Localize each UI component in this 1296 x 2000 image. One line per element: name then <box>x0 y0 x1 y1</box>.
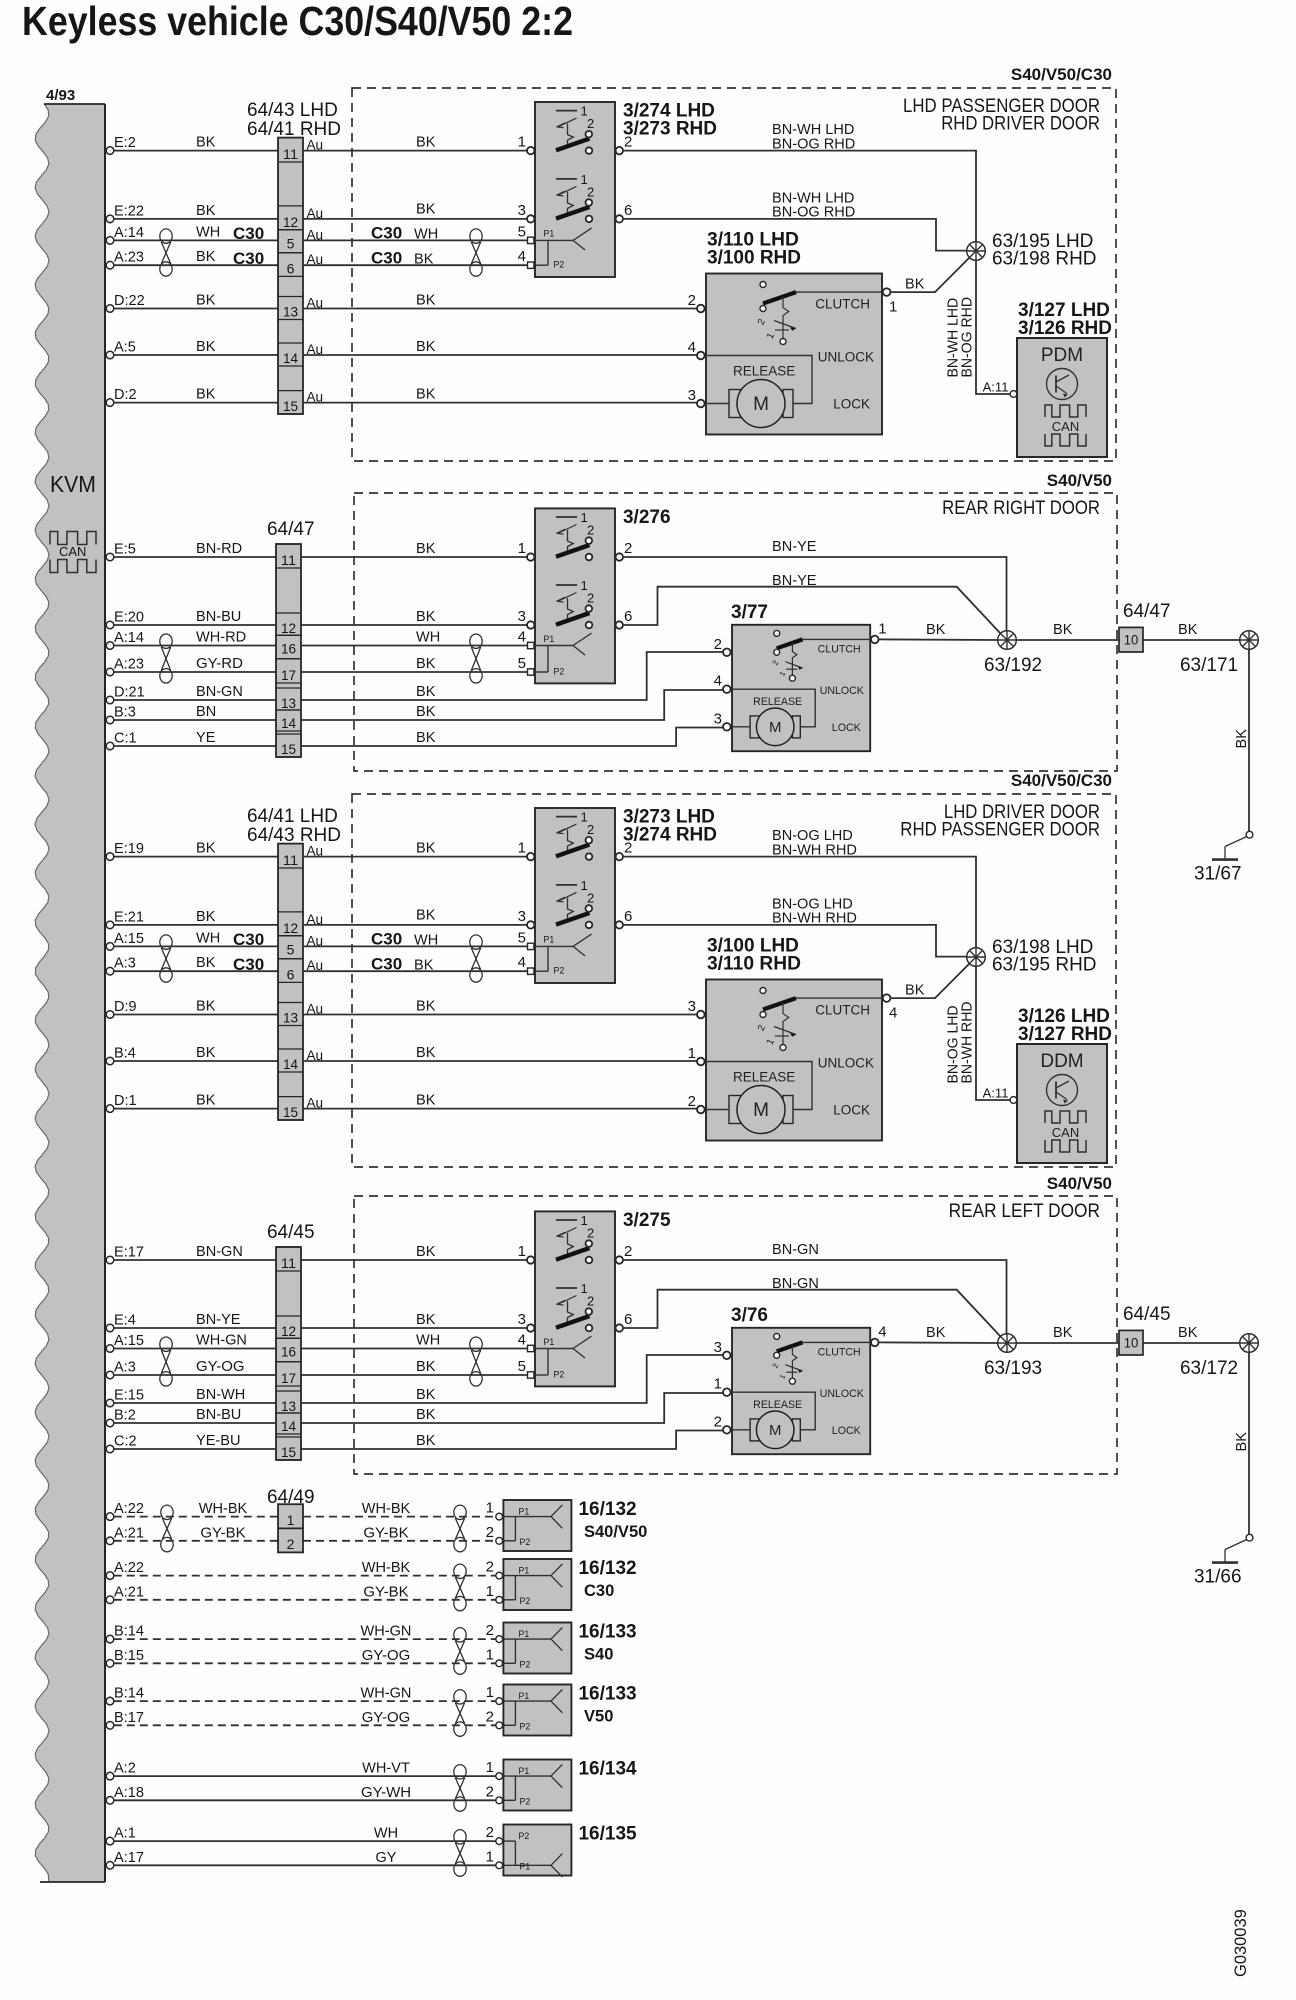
svg-text:BN-YE: BN-YE <box>772 538 817 555</box>
svg-text:BK: BK <box>196 134 215 151</box>
svg-text:BK: BK <box>1233 1432 1250 1451</box>
svg-text:3: 3 <box>714 1339 722 1356</box>
KVM pin E:2 <box>106 134 136 154</box>
wire B:15 from KVM to antenna 16/133 S40 <box>114 1662 496 1664</box>
svg-text:BK: BK <box>416 1243 435 1260</box>
svg-text:4: 4 <box>518 629 526 646</box>
KVM pin E:21 <box>106 908 144 928</box>
svg-text:LOCK: LOCK <box>832 722 861 734</box>
svg-text:BK: BK <box>416 338 435 355</box>
wire C:1 BK from connector to lock (jogged) <box>301 728 723 747</box>
svg-text:BK: BK <box>196 998 215 1015</box>
KVM pin A:21 <box>106 1524 144 1544</box>
antenna unit 16/135 body <box>503 1825 571 1876</box>
twisted pair before connector <box>160 229 172 276</box>
wire colour labels <box>361 1623 412 1664</box>
svg-text:BK: BK <box>416 200 435 217</box>
lock 3/100 clutch switch <box>756 988 796 1051</box>
svg-text:64/43 LHD: 64/43 LHD <box>247 100 338 121</box>
svg-text:A:21: A:21 <box>114 1583 144 1600</box>
splice 63/195 <box>967 242 986 261</box>
KVM pin B:3 <box>106 704 136 724</box>
svg-text:31/67: 31/67 <box>1194 864 1242 885</box>
KVM pin A:1 <box>106 1825 136 1845</box>
KVM pin A:14 <box>106 224 144 244</box>
wire D:1 BK from connector to component <box>303 1108 697 1110</box>
module PDM transistor symbol <box>1047 369 1078 400</box>
splice 63/193 <box>998 1334 1017 1353</box>
antenna pin numbers <box>486 1684 494 1725</box>
svg-text:P2: P2 <box>520 1722 531 1732</box>
svg-text:14: 14 <box>283 1056 298 1072</box>
svg-text:BK: BK <box>196 1092 215 1109</box>
svg-text:2: 2 <box>624 134 632 151</box>
lock 3/76 clutch switch <box>770 1333 802 1384</box>
svg-text:G030039: G030039 <box>1231 1909 1250 1977</box>
connector 64/41 pin 15 <box>278 1097 303 1120</box>
svg-text:A:11: A:11 <box>983 1086 1009 1101</box>
svg-text:3/76: 3/76 <box>731 1305 768 1326</box>
svg-text:16/132: 16/132 <box>579 1558 637 1579</box>
KVM pin A:23 <box>106 249 144 269</box>
svg-text:5: 5 <box>287 236 295 252</box>
svg-text:WH-BK: WH-BK <box>362 1559 411 1576</box>
svg-text:2: 2 <box>486 1559 494 1576</box>
svg-text:3/273 RHD: 3/273 RHD <box>623 119 717 140</box>
wire C:1 YE from KVM to connector <box>114 745 276 747</box>
svg-text:2: 2 <box>714 636 722 653</box>
wire E:21 BK from KVM to connector <box>114 924 278 926</box>
svg-text:P2: P2 <box>554 260 565 270</box>
connector 64/47 pin 12 <box>276 613 301 636</box>
wire D:1 BK from KVM to connector <box>114 1108 278 1110</box>
svg-text:3: 3 <box>688 998 696 1015</box>
svg-text:2: 2 <box>587 116 594 131</box>
twisted pair after connector <box>470 935 482 982</box>
svg-text:A:11: A:11 <box>983 380 1009 395</box>
connector 64/43 body <box>278 138 303 414</box>
svg-text:A:22: A:22 <box>114 1559 144 1576</box>
svg-text:RHD DRIVER DOOR: RHD DRIVER DOOR <box>941 114 1100 135</box>
wire BK from lock clutch pin to splice <box>890 964 969 999</box>
wire D:22 BK from connector to component <box>303 308 697 310</box>
svg-text:1: 1 <box>486 1646 494 1663</box>
wire A:23 BK from connector to switch <box>301 671 528 673</box>
switch 3/275 right pins 2/6 <box>616 1243 633 1332</box>
wire A:15 WH from KVM to connector <box>114 945 278 947</box>
svg-text:BK: BK <box>1053 621 1072 638</box>
svg-text:63/195 RHD: 63/195 RHD <box>992 955 1097 976</box>
svg-text:3: 3 <box>518 608 526 625</box>
svg-text:BK: BK <box>905 982 924 999</box>
connector 64/41 pin 6 <box>278 959 303 983</box>
twisted pair before connector <box>160 935 172 982</box>
wire D:9 BK from KVM to connector <box>114 1014 278 1016</box>
wire A:15 WH-GN from KVM to connector <box>114 1348 276 1350</box>
antenna pin numbers <box>486 1559 494 1600</box>
antenna 16/134 internal symbol <box>503 1764 562 1806</box>
KVM pin A:18 <box>106 1784 144 1804</box>
svg-text:BK: BK <box>196 1044 215 1061</box>
svg-text:BK: BK <box>414 957 433 974</box>
svg-text:12: 12 <box>283 920 298 936</box>
connector 64/43 pin 12 <box>278 206 303 230</box>
connector 64/45 pin 15 <box>276 1437 301 1460</box>
svg-text:13: 13 <box>283 304 298 320</box>
svg-text:4: 4 <box>889 1005 897 1022</box>
connector 64/41 pin 5 <box>278 936 303 959</box>
lock 3/100 right pin 4 <box>883 994 898 1021</box>
svg-text:2: 2 <box>486 1708 494 1725</box>
lock 3/77 release wire frame <box>732 689 815 727</box>
lock 3/110 right pin 1 <box>883 288 898 315</box>
svg-text:GY: GY <box>376 1849 397 1866</box>
KVM pin A:22 <box>106 1559 144 1579</box>
svg-text:63/172: 63/172 <box>1180 1358 1238 1379</box>
svg-text:A:3: A:3 <box>114 955 136 972</box>
connector 64/47 pin 13 <box>276 688 301 711</box>
connector 64/41 pin 11 <box>278 844 303 868</box>
svg-text:3/100 RHD: 3/100 RHD <box>707 248 801 269</box>
KVM pin D:9 <box>106 998 136 1018</box>
antenna unit 16/132 C30 body <box>503 1559 571 1610</box>
svg-text:CLUTCH: CLUTCH <box>815 1003 870 1018</box>
svg-text:63/192: 63/192 <box>984 655 1042 676</box>
svg-text:E:15: E:15 <box>114 1387 144 1404</box>
section border S1 LHD passenger door <box>352 88 1116 461</box>
antenna 16/132 C30 internal symbol <box>503 1564 562 1606</box>
svg-text:3: 3 <box>688 387 696 404</box>
svg-text:1: 1 <box>889 299 897 316</box>
wire A:22 from KVM to antenna 16/132 C30 <box>114 1575 496 1577</box>
KVM pin D:22 <box>106 292 145 312</box>
svg-text:2: 2 <box>587 1226 594 1241</box>
switch 3/273 pole 2 <box>556 878 594 928</box>
connector 64/47 pin 15 <box>276 734 301 757</box>
KVM pin E:20 <box>106 609 144 629</box>
svg-text:RELEASE: RELEASE <box>753 1399 802 1411</box>
svg-text:WH: WH <box>196 223 220 240</box>
svg-text:1: 1 <box>486 1848 494 1865</box>
svg-text:16: 16 <box>281 641 296 657</box>
switch 3/274 pole 2 <box>556 172 594 222</box>
svg-text:BK: BK <box>196 386 215 403</box>
svg-text:BK: BK <box>416 1358 435 1375</box>
switch 3/276 pole 2 <box>556 578 594 628</box>
antenna 16/135 internal symbol <box>503 1831 562 1877</box>
lock 3/76 left pins <box>714 1339 731 1434</box>
svg-text:WH-BK: WH-BK <box>362 1500 411 1517</box>
svg-text:M: M <box>769 1423 781 1439</box>
wire BN from switch pin 6 to splice <box>624 219 967 251</box>
svg-text:2: 2 <box>624 840 632 857</box>
svg-text:CAN: CAN <box>1052 1125 1079 1140</box>
module pin A:11 <box>983 380 1017 398</box>
KVM pin B:14 <box>106 1685 144 1705</box>
svg-text:10: 10 <box>1124 633 1139 648</box>
svg-text:C30: C30 <box>233 955 264 974</box>
wire E:5 BK from connector to switch <box>301 556 527 558</box>
svg-text:BN: BN <box>196 703 216 720</box>
switch 3/276 pole 1 <box>556 510 594 560</box>
lock 3/76 clutch output wire <box>803 1341 871 1343</box>
svg-text:1: 1 <box>486 1684 494 1701</box>
wire D:9 BK from connector to component <box>303 1014 697 1016</box>
connector 64/43 pin 5 <box>278 230 303 253</box>
switch 3/274 right pins 2/6 <box>616 134 633 223</box>
svg-text:C30: C30 <box>233 930 264 949</box>
svg-text:E:5: E:5 <box>114 541 136 558</box>
svg-text:2: 2 <box>587 523 594 538</box>
svg-text:6: 6 <box>624 202 632 219</box>
KVM pin A:21 <box>106 1583 144 1603</box>
wire BK from connector to ground splice <box>1143 639 1240 641</box>
wire B:2 BK from connector to lock (jogged) <box>301 1393 723 1423</box>
KVM pin C:2 <box>106 1433 136 1453</box>
connector 64/47 pin 14 <box>276 710 301 731</box>
twisted pair before connector <box>161 1505 173 1552</box>
svg-text:P2: P2 <box>520 1797 531 1807</box>
switch 3/275 antenna coupling P1/P2 <box>535 1336 592 1379</box>
twisted pair <box>454 1830 466 1877</box>
svg-text:A:17: A:17 <box>114 1849 144 1866</box>
svg-text:11: 11 <box>283 852 298 868</box>
svg-text:WH-RD: WH-RD <box>196 629 246 646</box>
svg-text:3: 3 <box>518 908 526 925</box>
wire A:3 BK from connector to switch <box>301 1374 528 1376</box>
svg-text:C30: C30 <box>584 1582 614 1600</box>
KVM top edge <box>44 103 105 105</box>
svg-text:11: 11 <box>281 1255 296 1271</box>
svg-text:BK: BK <box>416 840 435 857</box>
svg-text:BK: BK <box>416 906 435 923</box>
KVM control module 4/93 <box>35 104 105 1882</box>
lock 3/100 clutch output wire <box>796 997 882 999</box>
svg-text:64/45: 64/45 <box>1123 1304 1171 1325</box>
wire B:4 BK from KVM to connector <box>114 1060 278 1062</box>
svg-text:BK: BK <box>416 655 435 672</box>
svg-text:WH: WH <box>414 931 438 948</box>
wire D:21 BN-GN from KVM to connector <box>114 699 276 701</box>
switch 3/273 antenna coupling P1/P2 <box>535 934 592 976</box>
svg-text:BK: BK <box>416 1432 435 1449</box>
svg-text:E:2: E:2 <box>114 134 136 151</box>
svg-text:WH: WH <box>374 1825 398 1842</box>
twisted pair after connector <box>470 1337 482 1386</box>
lock 3/100 release wire frame <box>706 1062 812 1110</box>
connector 64/43 pin 13 <box>278 297 303 320</box>
svg-text:BK: BK <box>416 386 435 403</box>
svg-text:2: 2 <box>486 1783 494 1800</box>
svg-text:BN-GN: BN-GN <box>196 1243 243 1260</box>
antenna pin numbers <box>486 1824 494 1865</box>
KVM pin D:2 <box>106 386 136 406</box>
lock 3/76 right pin 4 <box>871 1323 887 1346</box>
svg-text:BK: BK <box>416 729 435 746</box>
svg-text:6: 6 <box>624 608 632 625</box>
wire A:21 from KVM to antenna 16/132 C30 <box>114 1599 496 1601</box>
svg-text:A:3: A:3 <box>114 1359 136 1376</box>
KVM pin A:5 <box>106 339 136 359</box>
switch 3/275 left pins 1/3/4/5 <box>518 1243 535 1378</box>
lock 3/110 clutch switch <box>756 282 796 345</box>
KVM CAN symbol <box>50 532 96 573</box>
svg-text:WH-GN: WH-GN <box>196 1332 247 1349</box>
svg-text:13: 13 <box>281 695 296 711</box>
svg-text:2: 2 <box>688 1093 696 1110</box>
svg-text:BK: BK <box>926 621 945 638</box>
svg-text:A:22: A:22 <box>114 1500 144 1517</box>
svg-text:GY-BK: GY-BK <box>200 1524 245 1541</box>
wire A:5 BK from KVM to connector <box>114 354 278 356</box>
svg-text:2: 2 <box>688 292 696 309</box>
svg-text:GY-OG: GY-OG <box>362 1709 411 1726</box>
svg-text:B:3: B:3 <box>114 704 136 721</box>
wire colour labels <box>361 1685 412 1726</box>
svg-text:BN-OG RHD: BN-OG RHD <box>772 204 855 221</box>
svg-text:3/77: 3/77 <box>731 602 768 623</box>
svg-text:BK: BK <box>196 840 215 857</box>
KVM pin B:14 <box>106 1623 144 1643</box>
wire E:15 BN-WH from KVM to connector <box>114 1402 276 1404</box>
wire C:2 YE-BU from KVM to connector <box>114 1448 276 1450</box>
twisted pair after connector <box>470 634 482 683</box>
svg-text:1: 1 <box>518 1243 526 1260</box>
svg-text:C30: C30 <box>371 249 402 268</box>
svg-text:14: 14 <box>281 715 296 731</box>
svg-text:P1: P1 <box>519 1766 530 1776</box>
twisted pair <box>454 1690 466 1737</box>
antenna 16/132 S40/V50 pins <box>496 1513 503 1544</box>
svg-text:S40: S40 <box>584 1646 613 1664</box>
svg-text:E:17: E:17 <box>114 1244 144 1261</box>
section border S4 rear left door <box>354 1196 1117 1474</box>
svg-text:WH-BK: WH-BK <box>199 1500 248 1517</box>
connector 64/45 pin 17 <box>276 1362 301 1386</box>
wire BN from switch pin 6 to splice (diagonal) <box>624 587 1001 634</box>
svg-text:BK: BK <box>416 1044 435 1061</box>
svg-text:2: 2 <box>486 1622 494 1639</box>
svg-text:BK: BK <box>196 954 215 971</box>
wire BN from switch pin 2 to splice <box>624 557 1007 631</box>
svg-text:BK: BK <box>1233 729 1250 748</box>
wire E:2 BK from connector to component <box>303 150 527 152</box>
ground connection point 31/67 <box>1194 831 1253 884</box>
svg-text:3/110 RHD: 3/110 RHD <box>707 954 801 975</box>
wire BN from switch pin 6 to splice <box>624 925 967 957</box>
ground splice 63/172 <box>1240 1334 1259 1353</box>
svg-text:64/41 LHD: 64/41 LHD <box>247 806 338 827</box>
svg-text:1: 1 <box>518 134 526 151</box>
lock 3/77 clutch switch <box>770 630 802 681</box>
svg-text:14: 14 <box>281 1418 296 1434</box>
svg-text:BN-OG RHD: BN-OG RHD <box>772 136 855 153</box>
svg-text:BK: BK <box>416 540 435 557</box>
svg-text:KVM: KVM <box>50 471 96 497</box>
door switch unit 3/273 body <box>535 808 615 983</box>
KVM pin A:15 <box>106 930 144 950</box>
svg-text:BK: BK <box>1178 621 1197 638</box>
wire A:5 BK from connector to component <box>303 354 697 356</box>
wire BK from splice to in-line connector <box>1016 1342 1119 1344</box>
antenna unit 16/134 body <box>503 1760 571 1811</box>
svg-text:PDM: PDM <box>1041 345 1083 366</box>
wire colour labels <box>362 1559 411 1600</box>
svg-text:63/171: 63/171 <box>1180 655 1238 676</box>
svg-text:A:23: A:23 <box>114 656 144 673</box>
svg-text:16/133: 16/133 <box>579 1684 637 1705</box>
svg-text:BK: BK <box>416 998 435 1015</box>
svg-text:UNLOCK: UNLOCK <box>820 1388 864 1400</box>
svg-text:D:21: D:21 <box>114 684 145 701</box>
svg-text:GY-BK: GY-BK <box>363 1524 408 1541</box>
KVM pin E:22 <box>106 202 144 222</box>
svg-text:WH-VT: WH-VT <box>362 1760 410 1777</box>
KVM pin A:2 <box>106 1760 136 1780</box>
svg-text:BN-WH: BN-WH <box>196 1386 245 1403</box>
connector 64/47 body <box>276 544 301 757</box>
switch 3/275 pole 1 <box>556 1213 594 1263</box>
svg-text:5: 5 <box>518 1358 526 1375</box>
svg-text:17: 17 <box>281 1370 296 1386</box>
svg-text:4: 4 <box>688 339 696 356</box>
wire A:17 from KVM to antenna 16/135 <box>114 1864 496 1866</box>
wire A:2 from KVM to antenna 16/134 <box>114 1775 496 1777</box>
svg-text:GY-WH: GY-WH <box>361 1784 411 1801</box>
svg-text:BK: BK <box>196 908 215 925</box>
svg-text:P2: P2 <box>520 1537 531 1547</box>
svg-text:CAN: CAN <box>1052 419 1079 434</box>
svg-text:B:2: B:2 <box>114 1407 136 1424</box>
svg-text:BK: BK <box>1053 1324 1072 1341</box>
wire E:19 BK from connector to component <box>303 856 527 858</box>
svg-text:B:14: B:14 <box>114 1623 144 1640</box>
svg-text:13: 13 <box>283 1010 298 1026</box>
connector 64/43 pin 6 <box>278 253 303 277</box>
svg-text:UNLOCK: UNLOCK <box>820 685 864 697</box>
svg-text:P1: P1 <box>519 1629 530 1639</box>
wire BK from splice to in-line connector <box>1016 639 1119 641</box>
svg-text:2: 2 <box>587 890 594 905</box>
antenna 16/133 V50 internal symbol <box>503 1689 562 1731</box>
wire C:2 BK from connector to lock (jogged) <box>301 1431 723 1450</box>
connector 64/45 pin 11 <box>276 1247 301 1271</box>
door lock motor unit 3/76 body <box>732 1328 870 1454</box>
KVM pin B:17 <box>106 1709 144 1729</box>
wire BN from switch pin 6 to splice (diagonal) <box>624 1290 1001 1337</box>
connector 64/41 pin 12 <box>278 912 303 936</box>
svg-text:4: 4 <box>518 1332 526 1349</box>
svg-text:6: 6 <box>624 1311 632 1328</box>
wire colour labels <box>362 1500 411 1541</box>
svg-text:1: 1 <box>518 540 526 557</box>
svg-text:1: 1 <box>287 1512 295 1528</box>
switch 3/276 right pins 2/6 <box>616 540 633 629</box>
connector 64/47 pin 11 <box>276 544 301 568</box>
connector 64/43 pin 11 <box>278 138 303 162</box>
svg-text:BN-WH RHD: BN-WH RHD <box>960 1002 976 1084</box>
svg-text:3/276: 3/276 <box>623 507 671 528</box>
door lock motor unit 3/77 body <box>732 625 870 751</box>
wire A:14 WH from connector to switch <box>301 645 528 647</box>
svg-text:S40/V50: S40/V50 <box>1047 1174 1112 1193</box>
wire E:2 BK from KVM to connector <box>114 150 278 152</box>
KVM pin B:4 <box>106 1045 136 1065</box>
KVM right edge <box>104 104 106 1882</box>
KVM pin D:21 <box>106 684 145 704</box>
control module 3/127 (PDM) body <box>1017 338 1107 457</box>
section border S2 rear right door <box>354 493 1117 771</box>
